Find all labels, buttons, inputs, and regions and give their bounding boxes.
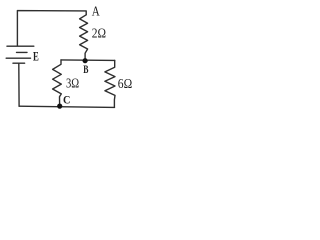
svg-text:A: A [92,5,101,20]
svg-text:E: E [33,49,39,64]
svg-text:2Ω: 2Ω [92,26,106,41]
svg-text:3Ω: 3Ω [66,75,79,90]
svg-text:B: B [83,64,88,76]
svg-text:C: C [63,93,70,107]
svg-text:6Ω: 6Ω [118,77,132,92]
